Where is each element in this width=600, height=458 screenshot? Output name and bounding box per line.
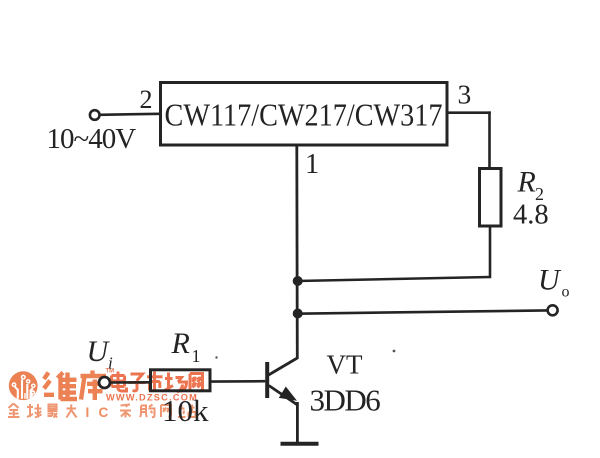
svg-text:10k: 10k — [162, 393, 209, 428]
svg-text:i: i — [108, 354, 113, 373]
resistor R2 body — [480, 169, 502, 227]
input terminal Ui — [99, 377, 110, 388]
svg-text:3: 3 — [458, 79, 472, 110]
pin 1 vertical wire — [295, 145, 298, 359]
库 glyph approximation — [81, 371, 107, 401]
svg-text:4.8: 4.8 — [513, 200, 549, 231]
大 — [67, 405, 77, 418]
resistor R1 body — [151, 370, 211, 391]
wire R2 bottom down — [489, 226, 492, 278]
网 glyph — [190, 374, 203, 392]
svg-text:o: o — [562, 284, 570, 301]
emitter vertical wire to ground — [296, 402, 299, 443]
transistor VT collector diagonal — [269, 358, 298, 375]
svg-text:3DD6: 3DD6 — [310, 383, 381, 418]
最 — [49, 405, 57, 410]
球 — [27, 404, 33, 417]
svg-text:1: 1 — [192, 346, 201, 366]
全 — [9, 404, 19, 409]
维 glyph approximation — [44, 373, 77, 400]
ground bar — [281, 442, 319, 446]
wire input to pin 2 — [100, 114, 160, 115]
node A junction dot — [293, 276, 303, 286]
logo circle — [9, 371, 38, 400]
svg-text:I: I — [86, 405, 90, 420]
svg-text:CW117/CW217/CW317: CW117/CW217/CW317 — [165, 98, 443, 133]
speck — [215, 356, 217, 358]
svg-text:U: U — [87, 335, 111, 368]
场 glyph — [165, 373, 187, 393]
input terminal — [90, 110, 100, 120]
bottom row: 全 球 最 大 I C 采 购 网 站 — [8, 404, 77, 418]
wire pin 3 horizontal — [447, 111, 491, 114]
网 — [161, 405, 171, 417]
logo circuit sprout — [15, 380, 33, 399]
svg-text:10~40V: 10~40V — [47, 123, 137, 155]
采 — [120, 404, 131, 418]
node B junction dot — [293, 309, 303, 319]
wire Ui to R1 — [110, 381, 151, 384]
svg-text:2: 2 — [140, 85, 153, 114]
base wire from R1 — [210, 380, 265, 383]
svg-text:R: R — [171, 327, 190, 360]
svg-text:R: R — [517, 166, 536, 199]
svg-text:U: U — [538, 264, 562, 297]
output terminal — [548, 305, 558, 315]
子 glyph — [129, 374, 146, 391]
svg-text:VT: VT — [327, 350, 363, 380]
市 glyph — [147, 372, 163, 392]
svg-text:C: C — [99, 405, 109, 420]
emitter arrowhead — [279, 387, 297, 401]
电 glyph — [112, 372, 127, 392]
regulator U box CW117 — [161, 83, 448, 146]
站 — [178, 405, 186, 417]
wire node B to output — [297, 310, 547, 313]
wire pin 3 vertical down to R2 — [488, 111, 491, 169]
transistor base bar — [265, 362, 269, 398]
transistor emitter diagonal — [269, 386, 297, 405]
购 — [140, 406, 147, 418]
wire node A to R2 bottom — [297, 277, 490, 281]
svg-text:1: 1 — [305, 149, 319, 180]
